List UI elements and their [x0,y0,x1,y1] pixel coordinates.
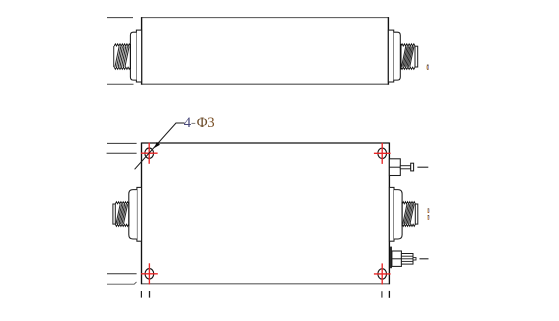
wire: left stub at box top edge [107,142,137,144]
feedthrough pin P1: end cap [411,163,414,171]
mounting hole (bottom-right) [378,269,387,279]
SMA connector J1 (top view left): barrel tip [113,46,115,67]
centerline cross (top-right hole) [374,143,391,164]
SMA connector J2 (bottom view right): threaded barrel [402,202,415,227]
feedthrough pin P2: ribbed insulator [401,254,413,265]
wire: left stub at box bottom edge with hooked end [107,282,137,284]
SMA connector J2 (top view right): threaded barrel [401,44,415,69]
feedthrough pin P1 (top right): body block [389,159,400,176]
centerline cross (bottom-right hole) [374,263,391,284]
extension tick below right hole column [381,291,383,297]
leader arrowhead [154,142,160,148]
svg-text:4-Φ3: 4-Φ3 [184,115,214,131]
SMA connector J2 (top view right): barrel tip [415,46,418,67]
top view: enclosure body (side view) [107,17,388,85]
SMA connector J1 (bottom view left): mounting plate [137,187,142,241]
feedthrough pin P2: lead tip [413,258,416,260]
extension tick below box right edge [388,291,390,298]
SMA connector J1 (top view left): thread hatch [115,46,129,66]
mounting hole (bottom-left) [145,269,154,279]
extension tick below left hole column [149,291,151,298]
SMA connector J1 (bottom view left): hex nut flange [129,190,137,239]
SMA connector J1 (bottom view left): threaded barrel [115,202,129,227]
SMA connector J2 (top view right): mounting plate [388,30,393,82]
mounting hole (top-right) [378,148,387,158]
feedthrough pin P2 (bottom right): wall boss strip [390,247,392,269]
tiny render artifact marks right of bottom view connector [427,208,429,219]
mounting hole (top-left) [145,148,154,158]
wire: centerline dash for pin P2 [420,258,429,260]
SMA connector J2 (bottom view right): thread hatch [403,204,414,224]
SMA connector J1 (top view left): hex nut flange [130,32,136,80]
SMA connector J1 (top view left): mounting plate [136,30,141,82]
SMA connector J1 (bottom view left): barrel tip [113,204,115,224]
SMA connector J2 (bottom view right): barrel tip [415,204,418,224]
SMA connector J2 (bottom view right): mounting plate [389,187,394,241]
SMA connector J2 (bottom view right): hex nut flange [394,190,402,239]
wire: left stub at lower hole row [107,273,137,275]
centerline cross (bottom-left hole) [141,263,158,284]
wire: left stub at upper hole row [107,152,137,154]
enclosure outline (top view) [142,17,389,19]
wire: centerline dash for pin P1 [417,166,428,168]
wire: left centerline stub bottom [107,83,134,85]
tiny render artifact glyph right of top view connector [426,65,428,70]
feedthrough pin P2: body block [392,251,402,266]
SMA connector J2 (top view right): hex nut flange [394,32,401,80]
SMA connector J2 (top view right): thread hatch [402,46,414,66]
bottom view: enclosure outline (plan view) [142,143,390,285]
leader line for hole callout [135,123,185,169]
centerline cross (top-left hole) [141,143,158,164]
SMA connector J1 (top view left): threaded barrel [114,44,130,69]
extension tick below box left edge [140,291,142,298]
wire: left centerline stub top [107,17,133,19]
feedthrough pin P1: lead [400,166,410,169]
SMA connector J1 (bottom view left): thread hatch [116,204,128,224]
